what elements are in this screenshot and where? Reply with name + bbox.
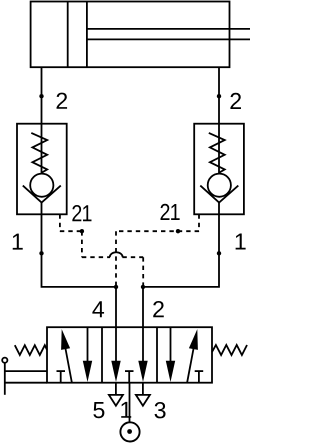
5/3 valve divider right: [156, 327, 158, 383]
left box diagonal arrow 1-4: [64, 338, 72, 382]
label 4: [92, 301, 104, 317]
check valve V2 wire through top: [218, 124, 220, 173]
cylinder rod top line: [87, 28, 250, 30]
middle box down arrow 4-5: [115, 327, 117, 372]
node dot port 2 junction: [141, 285, 145, 289]
check valve V1 box (left): [17, 124, 67, 215]
pilot line hop bridge: [110, 252, 123, 257]
supply line port 1: [129, 383, 131, 423]
left actuator plunger lower line: [5, 382, 47, 384]
right box down arrow 4-5: [170, 327, 172, 372]
5/3 valve body: [47, 327, 212, 383]
left actuator knob circle: [2, 358, 7, 363]
check valve V2 ball circle: [208, 174, 231, 197]
wire right valve down: [143, 203, 219, 287]
label 2 left cylinder port: [57, 93, 68, 109]
label 21 left pilot: [72, 205, 91, 221]
pilot line right (dashed): [116, 214, 199, 287]
compressed air source dot: [127, 429, 132, 434]
wire port 4: [115, 287, 117, 327]
right spring: [212, 345, 247, 355]
middle box down arrow 2-3: [142, 327, 144, 372]
exhaust stub 5: [115, 383, 117, 395]
node dot right pilot mid: [176, 229, 180, 233]
label 1 supply: [121, 402, 131, 418]
right box diagonal arrow 1-2: [187, 338, 195, 382]
label 2 right cylinder port: [230, 93, 241, 109]
wire cylinder left port: [41, 67, 43, 124]
node dot left wire: [39, 94, 43, 98]
check valve V1 spring: [31, 133, 47, 173]
right box blocked port T: [198, 371, 200, 383]
5/3 valve divider left: [101, 327, 103, 383]
cylinder rod bottom line: [87, 38, 250, 40]
check valve V2 spring: [209, 133, 225, 173]
left actuator plunger upper line: [5, 370, 47, 372]
label 2 valve port: [153, 301, 164, 317]
node dot port 4 junction: [114, 285, 118, 289]
middle box blocked port T: [128, 371, 130, 383]
node dot right wire: [217, 94, 221, 98]
label 3: [155, 402, 166, 418]
check valve V1 seat V: [23, 186, 61, 203]
cylinder body: [31, 2, 230, 68]
node dot left lower wire: [39, 251, 43, 255]
node dot right lower wire: [217, 251, 221, 255]
left actuator stem: [4, 363, 6, 395]
label 5: [93, 402, 104, 418]
check valve V2 box (right): [194, 124, 244, 215]
cylinder piston line left: [67, 2, 69, 68]
check valve V2 seat V: [200, 186, 238, 203]
label 1 left valve: [13, 234, 23, 250]
check valve V1 wire through top: [41, 124, 43, 173]
exhaust triangle 5: [109, 395, 123, 406]
wire cylinder right port: [218, 67, 220, 124]
node dot left pilot corner: [80, 229, 84, 233]
left box blocked port T: [60, 371, 62, 383]
exhaust stub 3: [142, 383, 144, 395]
wire port 2: [142, 287, 144, 327]
left box down arrow 2-3: [87, 327, 89, 372]
left spring: [15, 345, 47, 355]
wire left valve down: [42, 203, 117, 287]
label 21 right pilot: [161, 204, 180, 220]
cylinder piston line right: [86, 2, 88, 68]
compressed air source circle: [120, 422, 139, 441]
exhaust triangle 3: [136, 395, 150, 406]
pilot line left (dashed): [60, 214, 143, 287]
check valve V1 ball circle: [30, 174, 53, 197]
label 1 right valve: [236, 234, 246, 250]
